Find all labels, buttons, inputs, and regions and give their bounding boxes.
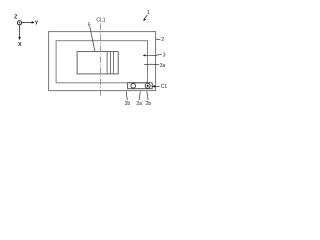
leader arrow for C1 xyxy=(154,85,160,87)
axis Y arrow xyxy=(22,21,33,23)
svg-text:5: 5 xyxy=(88,22,91,28)
svg-text:2a: 2a xyxy=(136,101,142,107)
outer case rectangle 2 xyxy=(49,32,156,91)
leader for 2b left xyxy=(126,91,127,100)
leader for 2 xyxy=(156,38,161,41)
board strip 2a xyxy=(128,83,153,89)
svg-text:Y: Y xyxy=(35,20,39,26)
svg-text:3: 3 xyxy=(163,53,166,59)
leader for 5 xyxy=(90,27,95,51)
svg-text:1: 1 xyxy=(147,10,150,16)
svg-text:X: X xyxy=(18,42,22,48)
coil lines inside block xyxy=(106,52,108,74)
leader arrow for 1 xyxy=(144,15,147,19)
leader for 2b right xyxy=(147,91,148,100)
terminal hole 2b left xyxy=(131,84,136,89)
svg-text:3a: 3a xyxy=(160,63,166,69)
leader arrow for 3 xyxy=(145,54,162,55)
leader for 2a xyxy=(139,91,140,100)
inner frame rectangle 3 xyxy=(56,41,147,83)
svg-text:2: 2 xyxy=(161,37,164,43)
centerline CL1 (dashed) xyxy=(100,23,102,97)
svg-text:2b: 2b xyxy=(146,101,152,107)
svg-text:C1: C1 xyxy=(161,84,168,90)
axis X arrow xyxy=(19,25,21,37)
axis origin circle (Z out of page) xyxy=(17,21,21,25)
svg-text:CL1: CL1 xyxy=(96,18,105,24)
weight block 5 xyxy=(77,52,118,74)
terminal hole 2b right with wire C1 xyxy=(145,83,150,88)
leader for 3a xyxy=(144,63,159,66)
svg-text:2b: 2b xyxy=(125,101,131,107)
